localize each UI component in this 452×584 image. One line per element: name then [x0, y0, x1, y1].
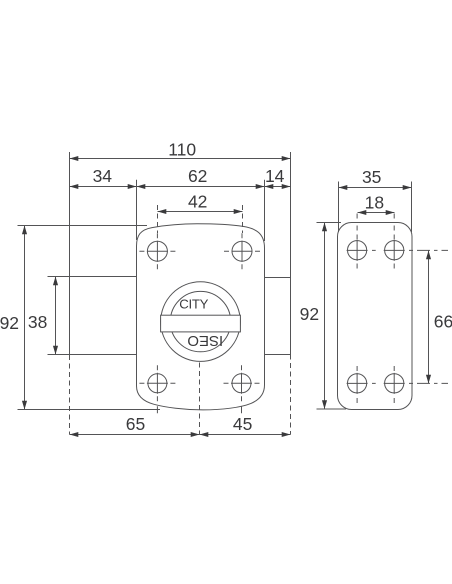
- knob turning bar: [161, 315, 241, 332]
- extension line plate right: [411, 182, 413, 233]
- dim 66 line: [428, 251, 430, 384]
- extension dashed 42 left: [157, 205, 159, 233]
- screw hole bottom-right crosshair: [224, 365, 260, 413]
- svg-text:92: 92: [0, 313, 19, 333]
- extension line bottom of body: [18, 409, 161, 411]
- knob outer circle: [161, 282, 241, 362]
- dim 35 line: [339, 187, 412, 189]
- lock body outline: [137, 224, 265, 410]
- svg-text:92: 92: [300, 304, 319, 324]
- cylinder protrusion bottom edge: [48, 354, 137, 356]
- plate hole top-left: [348, 241, 367, 260]
- extension line plate top: [317, 222, 342, 224]
- extension line plate bottom: [317, 408, 347, 410]
- svg-text:45: 45: [233, 414, 252, 434]
- plate bottom holes centerline: [347, 382, 448, 384]
- dim 14 line: [265, 186, 291, 188]
- knob inner circle: [170, 291, 230, 351]
- dim 45 line: [200, 434, 291, 436]
- screw hole top-right crosshair: [224, 233, 260, 269]
- plate hole vertical dashed right: [393, 214, 395, 269]
- screw hole top-right: [232, 241, 252, 261]
- svg-text:35: 35: [362, 167, 381, 187]
- vertical centerline below knob: [199, 363, 201, 435]
- svg-text:18: 18: [365, 193, 384, 213]
- screw hole bottom-right: [232, 374, 251, 393]
- plate hole top-right: [385, 241, 404, 260]
- svg-text:42: 42: [188, 192, 207, 212]
- extension line top of body: [18, 225, 148, 227]
- svg-text:110: 110: [168, 140, 196, 160]
- screw hole bottom-left crosshair: [139, 365, 175, 413]
- dim 42 line: [158, 211, 243, 213]
- screw hole top-left: [147, 241, 167, 261]
- screw hole top-left crosshair: [139, 233, 175, 269]
- extension dashed 42 right: [242, 205, 244, 233]
- plate bottom hole vertical dashed right: [393, 366, 395, 403]
- svg-text:38: 38: [28, 312, 47, 332]
- extension line plate left: [338, 182, 340, 233]
- svg-text:62: 62: [188, 166, 207, 186]
- svg-text:65: 65: [126, 414, 145, 434]
- dim 62 line: [137, 186, 265, 188]
- svg-text:CITY: CITY: [179, 297, 208, 312]
- plate bottom hole vertical dashed left: [356, 366, 358, 403]
- svg-text:14: 14: [265, 166, 285, 186]
- dim 65 line: [70, 434, 200, 436]
- rear bracket top edge: [265, 277, 291, 279]
- dim 92 plate line: [324, 223, 326, 410]
- dim 38 line: [55, 277, 57, 355]
- cylinder protrusion top edge: [48, 276, 137, 278]
- dim 110 line: [70, 158, 291, 160]
- plate top holes centerline: [347, 249, 448, 251]
- back plate outline: [338, 223, 413, 410]
- rear bracket right edge / extension line: [290, 152, 292, 355]
- svg-text:ISEO: ISEO: [187, 332, 223, 349]
- cylinder face dashed extension: [69, 355, 71, 435]
- dim 18 line: [358, 212, 395, 214]
- plate hole vertical dashed left: [356, 214, 358, 269]
- extension line body right: [264, 180, 266, 241]
- screw hole bottom-left: [148, 374, 167, 393]
- cylinder face / left extension line: [69, 152, 71, 355]
- extension line body left: [136, 180, 138, 240]
- svg-text:66: 66: [434, 312, 452, 332]
- svg-text:34: 34: [93, 166, 113, 186]
- rear bracket dashed extension: [290, 355, 292, 435]
- dim 92 left line: [24, 226, 26, 410]
- plate hole bottom-right: [385, 374, 404, 393]
- rear bracket bottom edge: [265, 354, 291, 356]
- plate hole bottom-left: [348, 374, 367, 393]
- dim 34 line: [70, 186, 137, 188]
